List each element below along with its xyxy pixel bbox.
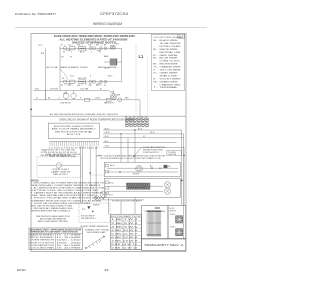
wire lamp link <box>90 174 104 176</box>
extra circles top row <box>100 47 103 50</box>
svg-text:Publication No. 5995A46877: Publication No. 5995A46877 <box>15 12 56 16</box>
svg-text:W -: W - <box>153 49 158 51</box>
wire top row <box>60 47 122 49</box>
EOC connector box <box>142 206 169 239</box>
connecting verticals <box>45 82 60 100</box>
svg-text:TO P1: TO P1 <box>38 45 43 47</box>
harness wire 3 <box>103 137 184 139</box>
svg-text:DOOR LOCK MOTOR ASSY: DOOR LOCK MOTOR ASSY <box>112 200 143 203</box>
thermostat box top <box>79 47 86 51</box>
svg-text:DOOR SW: DOOR SW <box>50 89 58 91</box>
svg-text:ELECTRONIC OVEN CONTROL: ELECTRONIC OVEN CONTROL <box>54 126 95 128</box>
svg-text:YELLOW WIRE: YELLOW WIRE <box>160 70 182 72</box>
svg-text:EOC: EOC <box>155 207 160 210</box>
svg-text:GRAY WIRE: GRAY WIRE <box>160 72 179 75</box>
svg-text:5. DOOR LATCH SWITCHES SHOWN C: 5. DOOR LATCH SWITCHES SHOWN CLOSED <box>31 202 92 205</box>
heating element hatched <box>110 59 117 65</box>
svg-text:P: P <box>99 242 100 244</box>
svg-text:P9: P9 <box>145 117 147 119</box>
mid vertical drops to box A <box>121 130 135 162</box>
svg-text:GREEN WIRE: GREEN WIRE <box>160 81 179 83</box>
svg-text:GY -: GY - <box>153 73 158 75</box>
svg-text:GY-11: GY-11 <box>105 146 110 148</box>
electronic oven control box <box>48 123 99 138</box>
svg-text:W-16: W-16 <box>35 89 39 91</box>
svg-text:3 BK 9 W 5: 3 BK 9 W 5 <box>111 226 138 228</box>
bottom row components <box>63 80 66 83</box>
svg-text:P14: P14 <box>141 122 144 124</box>
svg-text:BROWN WIRE: BROWN WIRE <box>160 64 179 66</box>
motor M1 circles <box>63 93 68 98</box>
bake circuit box <box>104 162 180 176</box>
wire vertical v80 <box>80 146 82 203</box>
svg-text:GN -: GN - <box>153 81 158 83</box>
header rule <box>15 27 207 29</box>
wiring diagram border <box>31 34 186 252</box>
svg-text:P6: P6 <box>133 117 135 119</box>
svg-text:P4: P4 <box>125 117 127 119</box>
svg-text:RY2: RY2 <box>116 44 119 46</box>
svg-text:1 2 3 4 5 6 7 8 9 10 11 12 13: 1 2 3 4 5 6 7 8 9 10 11 12 13 14 15 16 <box>49 148 98 150</box>
cam switch block <box>164 165 168 168</box>
svg-text:MOTOR: MOTOR <box>133 174 140 176</box>
svg-text:SENSOR: SENSOR <box>93 205 101 207</box>
svg-text:BLUE WIRE: BLUE WIRE <box>160 58 179 60</box>
svg-text:BAKE ELEMENT: BAKE ELEMENT <box>30 234 54 237</box>
mid components on lower wire <box>85 98 90 101</box>
relay contact top <box>63 47 66 50</box>
corner label box <box>178 34 184 38</box>
harness wire 4 <box>103 142 177 144</box>
wire vertical v82 <box>82 146 84 203</box>
svg-text:BU-14: BU-14 <box>138 128 142 130</box>
svg-text:2500W: 2500W <box>104 68 110 70</box>
svg-text:VIOLET WIRE: VIOLET WIRE <box>160 78 182 80</box>
svg-text:OR-16: OR-16 <box>150 132 155 134</box>
svg-text:DOOR LOCK MOTOR AND SWITCHES S: DOOR LOCK MOTOR AND SWITCHES SHOWN IN UN… <box>96 155 166 158</box>
svg-text:LIGHT SW: LIGHT SW <box>168 154 177 156</box>
capillary zigzag <box>60 69 68 82</box>
svg-text:BK-12: BK-12 <box>109 182 114 184</box>
svg-text:OVEN TEMP SENSOR: OVEN TEMP SENSOR <box>80 226 109 228</box>
svg-text:3. CABINET MUST BE GROUNDED AT: 3. CABINET MUST BE GROUNDED AT ALL TIMES… <box>31 192 104 195</box>
svg-text:E630: E630 <box>17 268 26 272</box>
svg-text:TEMPERATURE 70F COMPONENT / OH: TEMPERATURE 70F COMPONENT / OHMS EXPECTE… <box>30 231 79 234</box>
oven light lamp <box>38 164 56 166</box>
relay block top row <box>111 46 116 49</box>
svg-text:PLUG 2: PLUG 2 <box>170 227 176 229</box>
EOC pin field <box>147 211 161 237</box>
svg-text:8 BK 14 W 10: 8 BK 14 W 10 <box>111 244 137 246</box>
wire row lower mid <box>34 99 141 101</box>
svg-text:TERMINAL: TERMINAL <box>160 86 178 89</box>
harness wire 2 <box>103 133 180 135</box>
svg-text:PLUG 1: PLUG 1 <box>170 214 176 216</box>
svg-text:BK-10: BK-10 <box>108 76 112 78</box>
svg-text:18 GA UNLESS: 18 GA UNLESS <box>160 42 182 45</box>
svg-text:12: 12 <box>86 83 88 85</box>
connector J1 cluster <box>126 118 129 121</box>
junction dot on left border <box>30 109 32 111</box>
svg-text:BU-9: BU-9 <box>105 141 109 143</box>
pin header bracket <box>49 140 99 142</box>
svg-text:13: 13 <box>104 268 109 272</box>
svg-text:1. DISCONNECT ALL POWER BEFORE: 1. DISCONNECT ALL POWER BEFORE SERVICING… <box>31 181 105 184</box>
svg-text:L1: L1 <box>139 54 145 59</box>
svg-text:P13: P13 <box>137 122 140 124</box>
right vertical wire 2 <box>180 134 184 239</box>
svg-text:R -: R - <box>153 55 158 57</box>
svg-text:P8: P8 <box>141 117 143 119</box>
wire row upper mid <box>34 90 110 92</box>
svg-text:RED WIRE: RED WIRE <box>160 55 179 57</box>
svg-text:1 BK 7 W 3: 1 BK 7 W 3 <box>111 219 138 221</box>
svg-text:N1: N1 <box>63 51 65 53</box>
wire lamp row <box>100 198 144 200</box>
svg-text:OR -: OR - <box>153 67 158 69</box>
svg-text:9 BK 15 W 11: 9 BK 15 W 11 <box>111 248 137 250</box>
junction dots right <box>183 155 185 157</box>
svg-text:GY: GY <box>143 136 145 138</box>
svg-text:SEE NOTE 4 FOR PIN DETAIL: SEE NOTE 4 FOR PIN DETAIL <box>55 130 94 133</box>
ignition module box <box>168 206 186 239</box>
motor M2 double circle <box>111 94 117 100</box>
svg-text:BROIL 3400W →: BROIL 3400W → <box>98 67 120 69</box>
svg-text:BK -: BK - <box>153 40 158 42</box>
indicator circles top <box>89 47 92 50</box>
wire left branch vertical <box>44 48 46 100</box>
surface light enclosure (dashed) <box>79 203 110 223</box>
svg-text:L1: L1 <box>41 51 45 55</box>
bake wire <box>107 167 178 169</box>
broil wires <box>107 186 163 191</box>
svg-text:BK W R BU OR Y GY V BR GN: BK W R BU OR Y GY V BR GN <box>42 150 76 152</box>
svg-text:BR -: BR - <box>153 64 158 66</box>
clock lamp 1 <box>164 182 170 188</box>
svg-text:5 BK 11 W 7: 5 BK 11 W 7 <box>111 233 138 235</box>
door latch switch diagonal <box>134 147 142 157</box>
svg-text:OR-14: OR-14 <box>105 132 110 134</box>
dotted vertical wire <box>146 57 148 116</box>
svg-text:CHASSIS GND: CHASSIS GND <box>160 83 182 86</box>
svg-text:P7: P7 <box>137 117 139 119</box>
svg-text:ORANGE WIRE: ORANGE WIRE <box>160 66 182 69</box>
right vertical wire 3 <box>183 147 185 205</box>
svg-text:4. FOR EOC PIN DETAIL SEE CHAR: 4. FOR EOC PIN DETAIL SEE CHART AT RIGHT… <box>31 197 106 200</box>
svg-text:NOTED OTHER: NOTED OTHER <box>160 46 182 48</box>
element leads <box>104 61 122 63</box>
svg-text:AND COMPONENT TESTING: AND COMPONENT TESTING <box>38 220 69 223</box>
svg-text:SHIELD GND: SHIELD GND <box>160 75 179 77</box>
svg-text:2: 2 <box>71 51 72 53</box>
pin chart table <box>111 214 142 249</box>
svg-text:BLACK WIRE: BLACK WIRE <box>160 39 179 42</box>
svg-text:CONV: CONV <box>109 91 113 93</box>
svg-text:BU -: BU - <box>153 58 158 60</box>
bake wire lower <box>107 171 178 173</box>
svg-text:2 BK 8 W 4: 2 BK 8 W 4 <box>111 223 138 225</box>
svg-text:4: 4 <box>91 51 92 53</box>
right vertical wire 1 <box>177 130 182 206</box>
svg-text:CONV MOTOR: CONV MOTOR <box>60 102 72 104</box>
box B pin stubs <box>105 181 108 184</box>
svg-text:CONN TO EOC: CONN TO EOC <box>160 61 182 63</box>
svg-text:NEUTRAL LINE: NEUTRAL LINE <box>160 51 182 54</box>
component table <box>29 228 83 250</box>
legend box <box>151 34 184 90</box>
wire L1 bus vertical <box>59 46 61 83</box>
harness wire 1 <box>103 129 177 131</box>
part number strip <box>142 239 186 250</box>
svg-text:P2: P2 <box>61 85 63 87</box>
dashed vertical separator <box>135 45 137 116</box>
drop to connector cluster <box>139 100 141 118</box>
svg-text:ALL SWITCHES SHOWN WITH DOOR C: ALL SWITCHES SHOWN WITH DOOR CLOSED AND … <box>50 113 119 116</box>
svg-text:V -: V - <box>153 78 158 80</box>
svg-text:WIRES BEFORE RECONNECT.: WIRES BEFORE RECONNECT. <box>31 211 72 213</box>
angled element symbol <box>86 237 104 249</box>
svg-text:P11: P11 <box>129 122 132 124</box>
svg-text:CONV FAN MOTOR: CONV FAN MOTOR <box>30 244 55 247</box>
heating element block (hatched) <box>127 183 151 189</box>
wire vertical v96 <box>95 146 97 200</box>
svg-text:P10: P10 <box>125 122 128 124</box>
wires to pin table <box>109 198 136 215</box>
wire right vertical <box>121 48 123 81</box>
svg-text:P5: P5 <box>129 117 131 119</box>
wire bottom row <box>60 81 122 83</box>
oven light enclosure (dashed) <box>37 157 81 177</box>
clock lamp 2 <box>164 188 170 194</box>
svg-text:7 BK 13 W 9: 7 BK 13 W 9 <box>111 241 138 243</box>
svg-text:WIRING DIAGRAM: WIRING DIAGRAM <box>93 22 122 26</box>
svg-text:6 BK 12 W 8: 6 BK 12 W 8 <box>111 237 138 239</box>
svg-text:SWITCH: SWITCH <box>170 210 177 212</box>
svg-text:4 BK 10 W 6: 4 BK 10 W 6 <box>111 230 138 232</box>
svg-text:POSITION NOTE 2: POSITION NOTE 2 <box>143 152 159 154</box>
svg-text:T -: T - <box>153 87 158 89</box>
svg-text:L1: L1 <box>58 98 60 100</box>
svg-text:P12: P12 <box>133 122 136 124</box>
svg-text:Y -: Y - <box>153 70 158 72</box>
svg-text:COOLING FAN: COOLING FAN <box>30 246 56 249</box>
harness wire 5 <box>103 146 184 148</box>
svg-text:P1: P1 <box>61 45 63 47</box>
box A pin stubs <box>105 164 108 167</box>
svg-text:W-12: W-12 <box>109 194 113 196</box>
svg-text:SEE NOTE 5: SEE NOTE 5 <box>53 174 68 176</box>
svg-text:REL: REL <box>96 45 99 47</box>
svg-text:W-14: W-14 <box>70 76 74 78</box>
svg-text:EOC P1: EOC P1 <box>67 134 83 136</box>
corner label box right <box>167 150 182 156</box>
svg-text:CONV: CONV <box>95 98 101 100</box>
svg-text:RTD 1080 OHM 75F: RTD 1080 OHM 75F <box>81 216 95 218</box>
svg-text:MOTOR ROTATES CW TO LOCK DOOR: MOTOR ROTATES CW TO LOCK DOOR FOR CLEAN … <box>101 157 162 160</box>
svg-text:2. ALL WIRING MUST CONFORM TO: 2. ALL WIRING MUST CONFORM TO NATIONAL A… <box>31 187 106 190</box>
svg-text:BROIL UNIT: BROIL UNIT <box>78 78 87 80</box>
svg-text:CFEF372CS4: CFEF372CS4 <box>100 12 128 16</box>
svg-text:BK-14: BK-14 <box>110 165 115 167</box>
svg-text:6. REPLACE ALL PANELS AND GND: 6. REPLACE ALL PANELS AND GND <box>31 207 74 210</box>
svg-text:P6: P6 <box>70 57 72 59</box>
separator line <box>31 115 186 117</box>
svg-text:W-16: W-16 <box>105 136 109 138</box>
lamp DK2 <box>95 196 100 201</box>
svg-text:LIGHT ON WHEN CLOSED: LIGHT ON WHEN CLOSED <box>49 156 77 158</box>
svg-text:COLOR CODE LEGEND: COLOR CODE LEGEND <box>153 37 182 39</box>
switch box top <box>70 47 76 50</box>
svg-text:12: 12 <box>86 50 88 52</box>
svg-text:P15: P15 <box>145 122 148 124</box>
svg-text:18 - 24 OHMS: 18 - 24 OHMS <box>57 247 83 249</box>
svg-text:OVEN CIRCUIT SHOWN AT ROOM TEM: OVEN CIRCUIT SHOWN AT ROOM TEMPERATURE D… <box>59 118 134 121</box>
svg-text:BK-12: BK-12 <box>105 128 110 130</box>
svg-text:BK 12 GA → BAKE ELEMENT 2500W: BK 12 GA → BAKE ELEMENT 2500W <box>47 66 88 69</box>
svg-text:N.O.: N.O. <box>168 166 172 168</box>
svg-text:BK-8: BK-8 <box>80 51 84 53</box>
thermal fuse triangle <box>87 206 90 209</box>
wire vertical v90 <box>89 146 91 200</box>
extra circles bottom row <box>100 80 103 83</box>
svg-text:WHITE WIRE: WHITE WIRE <box>160 49 179 51</box>
door lock motor <box>136 166 143 173</box>
svg-text:AND TOUCH PANEL ASSEMBLY: AND TOUCH PANEL ASSEMBLY <box>52 128 97 131</box>
broil circuit box <box>104 178 180 197</box>
lamp DK1 <box>100 191 107 198</box>
svg-text:5995A46877 REV. A: 5995A46877 REV. A <box>145 243 184 247</box>
